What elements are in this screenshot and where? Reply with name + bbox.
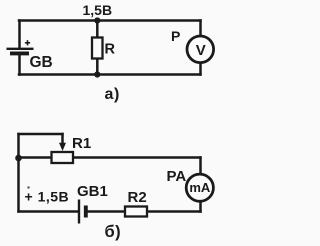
wire left rail circuit b bbox=[17, 134, 20, 212]
wire battery GB1 to left rail bbox=[19, 210, 79, 213]
wire left rail lower (battery to bottom rail) bbox=[18, 55, 21, 75]
battery GB1 plate short thick (negative) bbox=[84, 206, 88, 218]
wire node to R1 bbox=[19, 156, 52, 159]
wire bottom rail circuit a bbox=[19, 73, 201, 76]
svg-text:PA: PA bbox=[167, 168, 187, 185]
svg-text:V: V bbox=[196, 42, 206, 59]
wire voltmeter to bottom rail bbox=[199, 63, 202, 75]
battery GB plate long thin (positive) bbox=[7, 48, 34, 50]
node top of R bbox=[94, 17, 100, 23]
voltmeter P body bbox=[187, 36, 214, 63]
svg-text:а): а) bbox=[105, 86, 120, 103]
node bottom of R bbox=[94, 71, 100, 77]
battery GB plate short thick (negative) bbox=[10, 51, 29, 55]
wire resistor R bottom lead bbox=[96, 58, 99, 75]
svg-text:GB: GB bbox=[30, 54, 53, 71]
svg-text:б): б) bbox=[105, 223, 122, 241]
speck above plus sign bbox=[27, 186, 29, 188]
battery GB plus sign bbox=[25, 40, 30, 45]
resistor R body bbox=[92, 38, 103, 59]
wire right rail to ammeter bbox=[199, 158, 202, 176]
wire resistor R top lead bbox=[96, 21, 99, 39]
rheostat arrow head bbox=[59, 143, 66, 151]
svg-text:R2: R2 bbox=[128, 189, 147, 206]
svg-text:R: R bbox=[105, 42, 116, 58]
svg-text:R1: R1 bbox=[72, 135, 91, 152]
wire R2 to battery GB1 bbox=[87, 210, 125, 213]
svg-text:+ 1,5В: + 1,5В bbox=[25, 189, 70, 205]
svg-text:mA: mA bbox=[189, 180, 211, 195]
svg-text:1,5В: 1,5В bbox=[83, 2, 113, 18]
svg-text:GB1: GB1 bbox=[77, 183, 108, 200]
wire R1 to right corner bbox=[73, 156, 201, 159]
wire top rail circuit a bbox=[19, 19, 201, 22]
ammeter PA body bbox=[186, 174, 213, 201]
resistor R2 body bbox=[125, 207, 147, 217]
wire left rail upper (to battery +) bbox=[18, 21, 21, 49]
wire bottom rail right of R2 bbox=[147, 210, 201, 213]
rheostat R1 body bbox=[52, 152, 74, 163]
wire ammeter to bottom corner bbox=[199, 201, 202, 212]
svg-text:P: P bbox=[171, 28, 180, 44]
battery GB1 plate long thin (positive) bbox=[78, 200, 80, 224]
node on left rail circuit b bbox=[15, 155, 22, 162]
wire right rail to voltmeter bbox=[199, 21, 202, 37]
wire rheostat slider feed horizontal bbox=[19, 133, 63, 136]
wire rheostat slider vertical bbox=[61, 134, 64, 144]
